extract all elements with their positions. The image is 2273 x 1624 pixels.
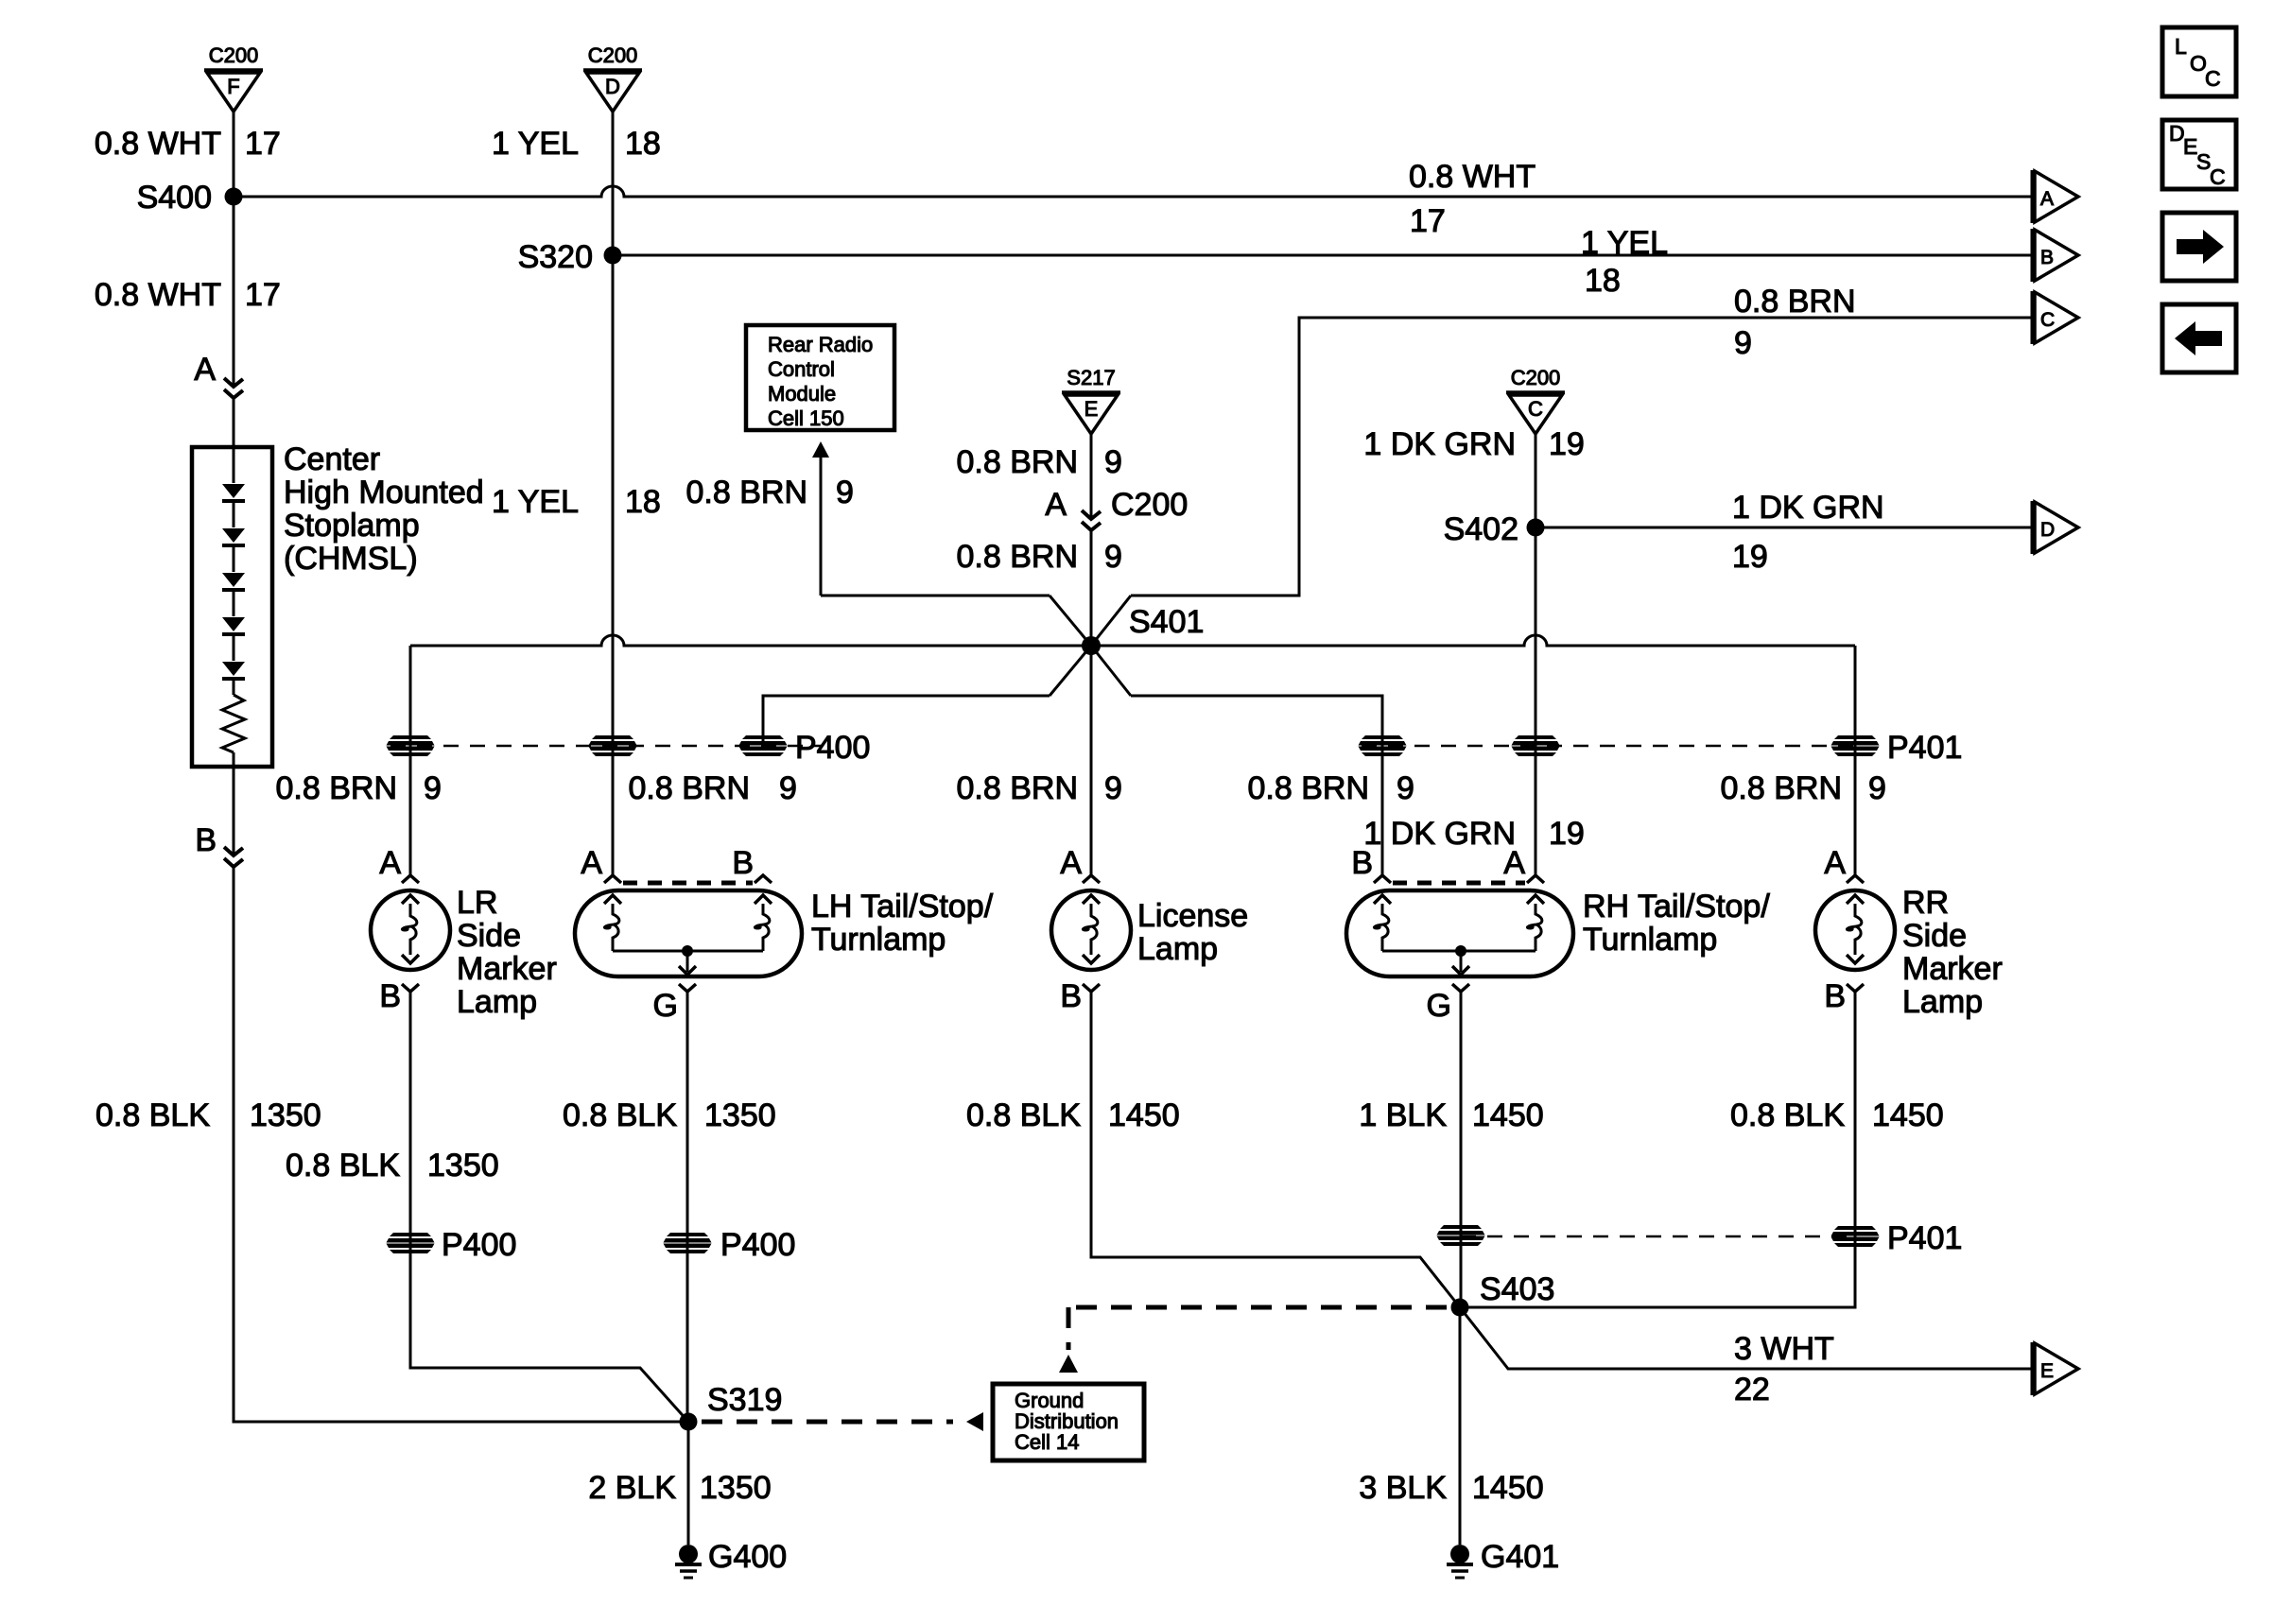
svg-text:A: A <box>194 352 216 388</box>
svg-text:9: 9 <box>1397 770 1414 806</box>
svg-text:S319: S319 <box>707 1382 782 1418</box>
wire S320 down to LH lamp A <box>612 255 615 746</box>
svg-text:9: 9 <box>1868 770 1886 806</box>
svg-text:A: A <box>379 845 401 881</box>
RH lamp internal junction <box>1455 945 1466 957</box>
svg-text:B: B <box>195 822 217 858</box>
RR lamp terminal A <box>1847 875 1864 883</box>
license lamp terminal A <box>1083 875 1100 883</box>
svg-text:A: A <box>1503 845 1525 881</box>
S401 lower-left branch to LH B <box>763 696 1050 746</box>
svg-text:Stoplamp: Stoplamp <box>284 508 420 544</box>
svg-text:1 YEL: 1 YEL <box>492 126 579 162</box>
svg-text:C200: C200 <box>1511 366 1561 389</box>
wire S402 down to RH lamp A <box>1535 527 1537 746</box>
svg-text:Cell 14: Cell 14 <box>1015 1430 1079 1454</box>
svg-text:1450: 1450 <box>1472 1470 1544 1506</box>
LR lamp text <box>457 885 557 1020</box>
wire C200-C to S402 <box>1535 434 1537 527</box>
svg-text:G: G <box>653 988 678 1024</box>
svg-text:9: 9 <box>1104 539 1122 575</box>
next-page arrow box <box>2162 213 2236 281</box>
LOC legend box <box>2162 27 2236 96</box>
connector grommet RH B (P401) <box>1359 735 1407 756</box>
wire license S401 to lamp <box>1090 646 1093 875</box>
reference arrowhead (up) <box>1059 1355 1078 1373</box>
wire label 0.8 BLK 1450 (license) <box>966 1097 1180 1133</box>
LH lamp terminal B <box>755 875 772 883</box>
wire S401 up to arrow C <box>1131 318 2032 596</box>
LH lamp element B <box>755 895 772 904</box>
svg-text:(CHMSL): (CHMSL) <box>284 541 418 577</box>
wire crossing to CHMSL box <box>233 398 235 447</box>
diode D5 <box>222 662 245 676</box>
svg-text:1 YEL: 1 YEL <box>1581 225 1668 261</box>
page arrow E <box>2033 1342 2078 1395</box>
splice S319 <box>680 1382 783 1431</box>
dashed reference from S319 <box>702 1420 953 1425</box>
svg-text:Rear Radio: Rear Radio <box>768 333 873 356</box>
svg-text:9: 9 <box>424 770 442 806</box>
wire S403 to arrow E <box>1460 1307 2032 1369</box>
dashed reference from S403 <box>1068 1305 1447 1310</box>
LH lamp element A <box>604 895 621 904</box>
svg-text:17: 17 <box>1410 203 1446 239</box>
connector C200 C <box>1506 366 1565 434</box>
wire label 1 DK GRN 19 (upper) <box>1363 426 1584 462</box>
connector C200 D <box>583 43 642 112</box>
svg-text:0.8 BRN: 0.8 BRN <box>1721 770 1843 806</box>
svg-text:B: B <box>1351 845 1373 881</box>
svg-text:0.8 BLK: 0.8 BLK <box>563 1097 677 1133</box>
connector grommet LR (P400) <box>387 735 435 756</box>
svg-text:D: D <box>605 75 620 98</box>
LH lamp internal dashed link <box>623 881 753 886</box>
LH lamp terminal A <box>604 875 621 883</box>
bus left drop to LR connector <box>409 646 412 746</box>
svg-text:A: A <box>1060 845 1082 881</box>
connector grommet (RH G) <box>1437 1225 1485 1246</box>
svg-text:A: A <box>2040 188 2054 210</box>
splice S403 <box>1451 1271 1555 1317</box>
wire LR connector to lamp <box>409 746 412 875</box>
svg-text:S403: S403 <box>1480 1271 1554 1307</box>
wire label 0.8 BRN 9 (LR) <box>276 770 442 806</box>
svg-text:1450: 1450 <box>1472 1097 1544 1133</box>
LH lamp terminal G <box>679 984 696 992</box>
svg-text:1 YEL: 1 YEL <box>492 484 579 520</box>
wire S319 to G400 <box>687 1422 690 1545</box>
wire label 3 WHT / 22 (to E) <box>1734 1331 1834 1408</box>
wire label 0.8 BRN 9 (above S401) <box>957 539 1122 575</box>
wire label 1 BLK 1450 <box>1359 1097 1543 1133</box>
svg-text:LR: LR <box>457 885 497 921</box>
svg-text:B: B <box>1060 978 1082 1014</box>
svg-text:9: 9 <box>779 770 797 806</box>
svg-text:0.8 BRN: 0.8 BRN <box>276 770 398 806</box>
Ground Distribution box <box>993 1384 1144 1460</box>
connector C200 F <box>204 43 263 112</box>
svg-text:P400: P400 <box>795 730 870 766</box>
svg-text:B: B <box>732 845 754 881</box>
svg-text:RH Tail/Stop/: RH Tail/Stop/ <box>1583 889 1770 924</box>
svg-text:Turnlamp: Turnlamp <box>811 922 946 958</box>
wire license B down <box>1091 992 1460 1307</box>
svg-text:1 BLK: 1 BLK <box>1359 1097 1447 1133</box>
svg-text:C: C <box>2210 164 2226 189</box>
wire LR B down to P400 <box>409 992 412 1243</box>
wire label 0.8 WHT / 17 (to A) <box>1409 159 1536 239</box>
svg-text:1 DK GRN: 1 DK GRN <box>1363 426 1516 462</box>
svg-text:Marker: Marker <box>457 951 557 987</box>
connector grommet LH A (P400) <box>589 735 637 756</box>
pin label A + connector crossing chevrons <box>194 352 243 398</box>
diode D3 <box>222 573 245 587</box>
wire S401 up-left branch <box>821 595 1050 597</box>
svg-text:B: B <box>379 978 401 1014</box>
svg-text:0.8 BLK: 0.8 BLK <box>286 1148 400 1183</box>
diode D1 <box>222 484 245 498</box>
svg-text:1350: 1350 <box>704 1097 776 1133</box>
svg-text:A: A <box>581 845 602 881</box>
svg-text:A: A <box>1824 845 1846 881</box>
svg-text:0.8 BRN: 0.8 BRN <box>957 770 1079 806</box>
connector grommet P400 (LH lower) <box>664 1233 712 1253</box>
svg-text:Module: Module <box>768 382 836 406</box>
svg-text:Lamp: Lamp <box>1137 931 1218 967</box>
LR lamp terminal A <box>402 875 419 883</box>
prev-page arrow box <box>2162 304 2236 372</box>
wire label 0.8 BLK 1450 (RR) <box>1730 1097 1944 1133</box>
wire label 0.8 BLK 1350 (CHMSL) <box>95 1097 321 1133</box>
wire RH B connector to lamp <box>1381 746 1384 875</box>
splice S401 <box>1082 604 1204 655</box>
svg-text:G400: G400 <box>708 1539 787 1575</box>
wire C200-D to S320 <box>612 112 615 255</box>
svg-text:0.8 BRN: 0.8 BRN <box>957 539 1079 575</box>
svg-text:Cell 150: Cell 150 <box>768 406 844 430</box>
S401 lower-right branch to RH B <box>1131 696 1382 746</box>
svg-text:0.8 WHT: 0.8 WHT <box>1409 159 1536 195</box>
svg-text:E: E <box>2040 1360 2054 1382</box>
page arrow A <box>2033 170 2078 223</box>
svg-text:D: D <box>2040 519 2055 541</box>
CHMSL internal wire <box>233 447 235 483</box>
RH lamp terminal G <box>1452 984 1469 992</box>
RH lamp element A <box>1527 895 1544 904</box>
svg-text:B: B <box>1824 978 1846 1014</box>
RH lamp terminal B <box>1374 875 1391 883</box>
LH lamp text <box>811 889 994 958</box>
RH tail/stop/turnlamp body <box>1346 890 1573 976</box>
LR side marker lamp <box>371 890 450 970</box>
LH lamp internal junction <box>682 945 693 957</box>
svg-text:3 WHT: 3 WHT <box>1734 1331 1834 1367</box>
wire label 0.8 BLK 1350 (LH G) <box>563 1097 776 1133</box>
reference arrowhead (left) <box>966 1412 983 1431</box>
svg-text:1350: 1350 <box>250 1097 321 1133</box>
wire label 0.8 BRN 9 (RR) <box>1721 770 1886 806</box>
svg-text:0.8 BRN: 0.8 BRN <box>957 444 1079 480</box>
wire LH G to S319 <box>686 1243 689 1422</box>
wire S320 to arrow B <box>613 254 2032 257</box>
LH lamp internal bus <box>613 950 763 953</box>
RH lamp internal bus <box>1382 950 1536 953</box>
S401 diagonal branches <box>1050 596 1091 646</box>
wire RR connector to lamp <box>1854 746 1857 875</box>
wire S403 to G401 <box>1459 1307 1462 1545</box>
svg-text:S401: S401 <box>1129 604 1204 640</box>
bus right drop to RR connector <box>1854 646 1857 746</box>
wire label 0.8 BRN / 9 (to C) <box>1734 284 1856 361</box>
svg-text:P400: P400 <box>442 1227 516 1263</box>
connector grommet RH A (P401) <box>1512 735 1560 756</box>
svg-text:Side: Side <box>1902 918 1967 954</box>
CHMSL lamp box <box>192 447 272 767</box>
connector grommet P401 (RR lower) <box>1831 1226 1880 1247</box>
svg-text:0.8 WHT: 0.8 WHT <box>95 277 221 313</box>
wire S217 down <box>1090 434 1093 519</box>
svg-text:A: A <box>1045 487 1067 523</box>
wire label 2 BLK 1350 <box>588 1470 771 1506</box>
inline connector dashed line (P401 row) <box>1362 745 1855 748</box>
svg-text:0.8 BRN: 0.8 BRN <box>629 770 751 806</box>
splice S217 triangle E <box>1062 366 1120 434</box>
ground G401 <box>1447 1539 1559 1578</box>
connector crossing A C200 <box>1045 487 1188 530</box>
svg-text:License: License <box>1137 898 1248 934</box>
svg-text:C: C <box>2040 309 2055 331</box>
svg-text:1350: 1350 <box>427 1148 499 1183</box>
svg-text:1450: 1450 <box>1108 1097 1180 1133</box>
svg-text:18: 18 <box>625 484 661 520</box>
svg-text:1 DK GRN: 1 DK GRN <box>1732 490 1884 526</box>
svg-text:3 BLK: 3 BLK <box>1359 1470 1447 1506</box>
wire label 1 YEL / 18 (to B) <box>1581 225 1668 299</box>
svg-text:17: 17 <box>245 126 281 162</box>
svg-text:C200: C200 <box>1111 487 1188 523</box>
wire S400 to arrow A (hops over 1 YEL) <box>234 186 2032 197</box>
RR side marker lamp <box>1815 890 1895 970</box>
splice S320 <box>518 239 622 275</box>
svg-text:L: L <box>2175 34 2187 59</box>
svg-text:0.8 BLK: 0.8 BLK <box>966 1097 1081 1133</box>
RH lamp text <box>1583 889 1770 958</box>
svg-text:0.8 WHT: 0.8 WHT <box>95 126 221 162</box>
CHMSL text label <box>284 441 484 577</box>
page arrow D <box>2033 501 2078 554</box>
wire CHMSL B down <box>233 767 235 854</box>
svg-text:19: 19 <box>1732 539 1768 575</box>
DESC legend box <box>2162 120 2236 189</box>
wire label 0.8 WHT 17 (upper) <box>95 126 281 162</box>
wire RR B down <box>1460 992 1855 1307</box>
main BRN bus wire (hops at 648 and 1624) <box>410 635 1855 646</box>
wire crossing to S401 <box>1090 530 1093 646</box>
svg-text:Turnlamp: Turnlamp <box>1583 922 1717 958</box>
LR lamp terminal B <box>402 984 419 992</box>
wire label 0.8 BRN 9 (radio) <box>686 475 854 510</box>
svg-text:C200: C200 <box>209 43 259 67</box>
svg-text:17: 17 <box>245 277 281 313</box>
svg-text:19: 19 <box>1549 426 1585 462</box>
RR lamp terminal B <box>1847 984 1864 992</box>
wire LH G down to P400 <box>686 992 689 1243</box>
Rear Radio Control Module box <box>746 325 894 430</box>
RR lamp text <box>1902 885 2003 1020</box>
wire RH G down <box>1460 992 1463 1307</box>
svg-text:Side: Side <box>457 918 521 954</box>
splice S400 <box>137 180 243 216</box>
resistor (CHMSL) <box>222 695 245 752</box>
license lamp <box>1051 890 1131 970</box>
arrow into Rear Radio module <box>812 441 829 458</box>
wire resistor to box bottom <box>233 752 235 767</box>
svg-text:1 DK GRN: 1 DK GRN <box>1363 816 1516 852</box>
wire label 0.8 BRN 9 (below S217) <box>957 444 1122 480</box>
wire label 0.8 BRN 9 (LH) <box>629 770 797 806</box>
connector grommet P400 (LR lower) <box>387 1233 435 1253</box>
lower dashed connector line (P401) <box>1461 1235 1855 1238</box>
wire label 1 DK GRN / 19 (to D) <box>1732 490 1884 575</box>
svg-text:C200: C200 <box>588 43 638 67</box>
svg-text:S217: S217 <box>1067 366 1115 389</box>
wire C200-F to S400 <box>233 112 235 197</box>
diode D2 <box>222 528 245 543</box>
svg-text:19: 19 <box>1549 816 1585 852</box>
svg-text:G401: G401 <box>1481 1539 1559 1575</box>
wire label 1 DK GRN 19 (lower) <box>1363 816 1584 852</box>
LH tail/stop/turnlamp body <box>575 890 802 976</box>
svg-text:18: 18 <box>625 126 661 162</box>
svg-text:22: 22 <box>1734 1372 1770 1408</box>
svg-text:Marker: Marker <box>1902 951 2003 987</box>
svg-text:F: F <box>227 75 239 98</box>
page arrow C <box>2033 291 2078 344</box>
wire S400 down to CHMSL <box>233 197 235 385</box>
wire label 3 BLK 1450 <box>1359 1470 1543 1506</box>
license lamp text <box>1137 898 1248 967</box>
svg-text:2 BLK: 2 BLK <box>588 1470 676 1506</box>
svg-text:Control: Control <box>768 357 835 381</box>
RH lamp ground lead arrow <box>1460 951 1463 972</box>
svg-text:0.8 BRN: 0.8 BRN <box>1248 770 1370 806</box>
RH lamp terminal A <box>1527 875 1544 883</box>
pin label B + connector crossing chevrons <box>195 822 243 867</box>
wire label 1 YEL 18 (lower) <box>492 484 661 520</box>
svg-text:High Mounted: High Mounted <box>284 475 484 510</box>
svg-text:B: B <box>2040 247 2054 268</box>
svg-text:S320: S320 <box>518 239 593 275</box>
svg-text:1450: 1450 <box>1872 1097 1944 1133</box>
LH lamp ground lead arrow <box>686 951 689 972</box>
wire label 0.8 BRN 9 (RH B) <box>1248 770 1414 806</box>
svg-text:0.8 BRN: 0.8 BRN <box>686 475 808 510</box>
splice S402 <box>1444 511 1545 547</box>
svg-text:0.8 BLK: 0.8 BLK <box>95 1097 210 1133</box>
wire label 0.8 BLK 1350 (LR) <box>286 1148 499 1183</box>
connector grommet LH B (P400) <box>739 735 788 756</box>
svg-text:G: G <box>1427 988 1451 1024</box>
svg-text:E: E <box>1084 397 1099 421</box>
svg-text:RR: RR <box>1902 885 1949 921</box>
svg-text:0.8 BLK: 0.8 BLK <box>1730 1097 1845 1133</box>
svg-text:18: 18 <box>1585 263 1621 299</box>
svg-text:0.8 BRN: 0.8 BRN <box>1734 284 1856 320</box>
connector grommet RR (P401) <box>1831 735 1880 756</box>
wire label 0.8 WHT 17 (lower) <box>95 277 281 313</box>
svg-text:Lamp: Lamp <box>1902 984 1983 1020</box>
wire label 1 YEL 18 (upper) <box>492 126 661 162</box>
inline connector dashed line (P400 row) <box>390 745 821 748</box>
svg-text:C: C <box>1528 397 1543 421</box>
ground G400 <box>675 1539 787 1578</box>
page arrow B <box>2033 229 2078 282</box>
license lamp terminal B <box>1083 984 1100 992</box>
RH lamp internal dashed link <box>1393 881 1525 886</box>
svg-text:Center: Center <box>284 441 380 477</box>
svg-text:Lamp: Lamp <box>457 984 537 1020</box>
svg-text:1350: 1350 <box>700 1470 772 1506</box>
svg-text:P401: P401 <box>1887 730 1962 766</box>
wire label 0.8 BRN 9 (license) <box>957 770 1122 806</box>
RH lamp element B <box>1374 895 1391 904</box>
svg-text:S400: S400 <box>137 180 212 216</box>
wire LR to S319 <box>410 1243 688 1422</box>
wire S402 to arrow D <box>1536 527 2032 529</box>
svg-text:9: 9 <box>1104 770 1122 806</box>
svg-text:9: 9 <box>1734 325 1752 361</box>
wire B to S319 run <box>234 867 688 1422</box>
svg-text:P401: P401 <box>1887 1220 1962 1256</box>
diode D4 <box>222 617 245 631</box>
svg-text:S402: S402 <box>1444 511 1518 547</box>
svg-text:P400: P400 <box>720 1227 795 1263</box>
svg-text:C: C <box>2205 66 2221 91</box>
svg-text:9: 9 <box>836 475 854 510</box>
svg-text:LH Tail/Stop/: LH Tail/Stop/ <box>811 889 994 924</box>
svg-text:9: 9 <box>1104 444 1122 480</box>
